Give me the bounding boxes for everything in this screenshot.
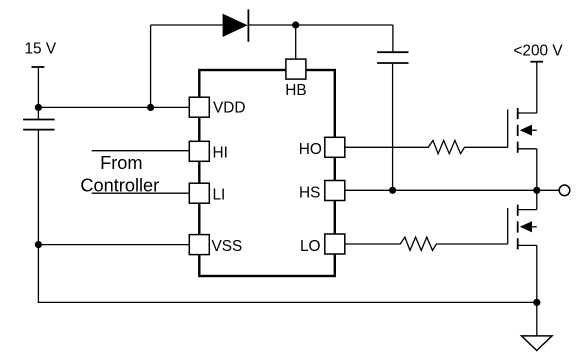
svg-text:Controller: Controller xyxy=(80,175,159,195)
svg-text:LI: LI xyxy=(213,186,226,203)
svg-text:HI: HI xyxy=(213,145,228,162)
svg-text:15 V: 15 V xyxy=(25,41,57,58)
svg-text:From: From xyxy=(100,153,142,173)
svg-text:HO: HO xyxy=(299,141,322,158)
svg-text:VDD: VDD xyxy=(213,100,246,117)
svg-text:LO: LO xyxy=(300,238,321,255)
svg-text:<200 V: <200 V xyxy=(513,42,563,59)
svg-text:HS: HS xyxy=(299,184,320,201)
svg-text:VSS: VSS xyxy=(212,238,243,255)
svg-text:HB: HB xyxy=(285,82,306,99)
